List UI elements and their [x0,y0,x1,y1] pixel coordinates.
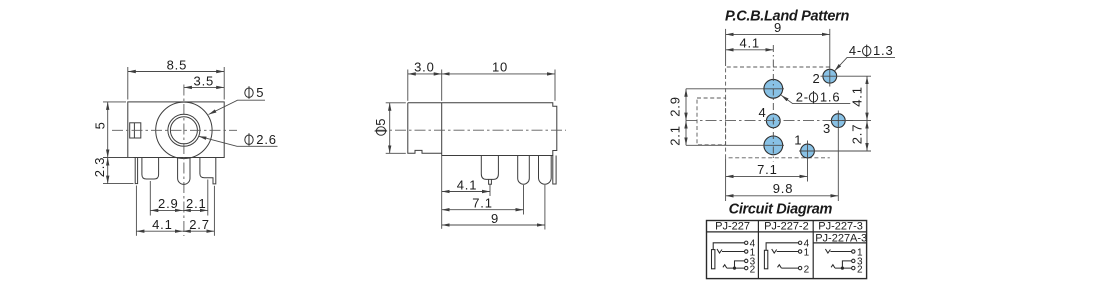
cell1 terminal 3 [745,259,748,262]
pad 1 crosshair vertical [807,141,809,182]
svg-text:8.5: 8.5 [167,58,187,73]
cell1 terminal 4 [745,241,748,244]
dim 9 [442,224,545,226]
cell1 tip switch contact [717,249,722,253]
svg-text:2.7: 2.7 [189,217,209,232]
jack hole inner circle [170,117,197,144]
cell2 tip switch contact [772,249,777,253]
side right flat pin [553,156,556,185]
dim 2.9 left [685,89,687,121]
dim 9 extension line [544,185,546,230]
dim 2.7 [183,230,215,232]
side pin 3 [539,156,552,185]
dim 5 extension lines [103,101,126,103]
pad bottom-left crosshair horizontal [686,144,784,146]
barrel footprint dashed outline [697,98,726,145]
dim 2.1 extension line [207,180,209,216]
svg-text:4.1: 4.1 [457,177,477,192]
pads column centerline [772,45,774,162]
dim 4.1 extension line [489,185,491,196]
dim phi5 [389,103,391,154]
cell1 sleeve bar [712,250,715,269]
cell2 wire to terminal 2 [781,267,798,269]
bent left pin [135,158,137,184]
dim 7.1 [726,175,808,177]
svg-text:9: 9 [491,211,499,226]
dim 2.1 [183,209,208,211]
cell1 junction dot [733,267,736,270]
cell1 wire to terminal 1 [722,251,745,253]
dim 7.1 [442,209,524,211]
cell1 terminal 1 [745,250,748,253]
side pin 1 [481,156,498,180]
cell2 terminal 4 [798,241,801,244]
svg-text:PJ-227: PJ-227 [715,221,750,233]
cell1 ring spring contact [723,265,727,268]
label phi5 leader [209,100,266,114]
cell1 wire terminal 3 to junction [735,261,745,268]
svg-text:4: 4 [758,105,766,120]
cell1 terminal 2 [745,266,748,269]
dim 4.1 [136,230,182,232]
cell2 terminal 2 [798,266,801,269]
svg-text:2: 2 [857,264,863,275]
dim 9 extension lines [725,29,727,66]
table divider 1 [757,221,759,279]
header underline col3 second [813,242,866,244]
left pin [142,158,159,180]
svg-text:3.0: 3.0 [414,60,434,75]
pad 3 [831,114,845,128]
pad top-left crosshair horizontal [686,88,784,90]
svg-text:5: 5 [256,85,264,100]
dim 5 [107,102,109,158]
svg-text:9: 9 [774,20,782,35]
cell3 terminal 3 [852,259,855,262]
svg-text:2-: 2- [796,90,809,105]
dim 3.0 [408,73,442,75]
cell3 wire to terminal 2 [835,267,852,269]
dim 9 [726,33,830,35]
side pin 1 tail stub [489,179,492,184]
jack ring outer circle [168,114,200,146]
svg-text:4.1: 4.1 [739,36,759,51]
svg-text:PJ-227-2: PJ-227-2 [764,221,809,233]
dim 10 extension line [554,70,556,101]
dim 2.7 extension line [213,186,215,236]
cell3 wire to terminal 1 [830,251,851,253]
dim 4.1 extension line [135,186,137,236]
svg-text:10: 10 [492,60,508,75]
svg-text:3.5: 3.5 [194,74,214,89]
svg-text:2: 2 [812,71,820,86]
side centerline [376,129,567,131]
table outer border [707,221,867,279]
cell1 wire to terminal 2 [727,267,745,269]
pad 2 [823,69,837,83]
svg-text:3: 3 [823,121,831,136]
front body outline [128,102,224,158]
svg-text:2.3: 2.3 [92,157,107,177]
dim 3.0 extension lines [407,70,409,101]
svg-text:2: 2 [750,264,756,275]
left side tab [130,123,141,138]
body footprint dashed outline [726,67,830,158]
svg-text:PJ-227-3: PJ-227-3 [818,221,863,233]
pad 1 crosshair horizontal [799,150,871,152]
cell2 wire to terminal 4 [766,243,798,251]
svg-text:2.6: 2.6 [256,132,276,147]
svg-text:PJ-227A-3: PJ-227A-3 [815,232,867,244]
dim 3.5 [184,86,224,88]
dim 9.8 [726,195,839,197]
cell2 terminal 1 [798,250,801,253]
side pin 2 [518,156,530,185]
cell2 ring spring contact [778,265,782,268]
barrel body divider [441,103,443,156]
common extension line [441,156,443,229]
svg-text:P.C.B.Land Pattern: P.C.B.Land Pattern [725,8,849,24]
dim 2.3 extension line [103,183,134,185]
jack barrel outer circle [156,102,212,158]
dim 2.3 [107,158,109,184]
svg-text:2.9: 2.9 [667,96,682,116]
table divider 2 [812,221,814,279]
pad 3 crosshair horizontal [830,120,872,122]
svg-text:1: 1 [794,133,802,148]
center pin [178,158,190,185]
svg-text:1.3: 1.3 [873,43,893,58]
dim 10 [442,73,555,75]
dim 7.1 extension line [725,158,727,201]
cell2 sleeve bar [764,250,767,268]
cell3 terminal 1 [852,250,855,253]
dim 2.7 right [866,121,868,151]
cell1 wire to terminal 4 [713,243,744,250]
svg-text:5: 5 [373,118,388,126]
dim 7.1 extension line [523,185,525,215]
pad hole bottom-left phi1.6 [764,136,783,155]
svg-text:4.1: 4.1 [850,86,865,106]
dim phi5 extension lines [386,102,406,104]
dim 8.5 extension lines [127,67,129,100]
svg-text:1.6: 1.6 [820,90,840,105]
cell3 terminal 2 [852,266,855,269]
pad hole top-left phi1.6 [764,79,783,98]
side body outline [408,103,557,156]
svg-text:4-: 4- [849,43,862,58]
svg-text:2.1: 2.1 [186,196,206,211]
pad 3 crosshair vertical [837,111,839,202]
dim 4.1 top [726,49,774,51]
cell2 wire to terminal 1 [777,251,799,253]
dim 4.1 [442,191,490,193]
horizontal centerline [112,129,237,131]
svg-text:9.8: 9.8 [773,181,793,196]
horizontal centerline [686,120,856,122]
cell3 ring spring contact [831,265,835,268]
dim 2.1 left [685,121,687,146]
dim 4.1 right [866,76,868,120]
svg-text:4.1: 4.1 [152,217,172,232]
svg-text:2.7: 2.7 [850,124,865,144]
pad 2 crosshair horizontal [821,75,872,77]
right pin with bent tail [200,158,216,184]
cell3 tip switch contact [825,249,830,253]
svg-text:2: 2 [804,264,810,275]
svg-text:7.1: 7.1 [757,162,777,177]
vertical centerline [183,85,185,237]
cell3 wire terminal 3 to junction [842,261,851,268]
svg-text:2.1: 2.1 [667,125,682,145]
cell3 junction dot [841,267,844,270]
left side tab divider [133,123,135,138]
svg-text:2.9: 2.9 [158,196,178,211]
label 4-phi1.3 leader [835,57,896,71]
pad 4 [766,114,780,128]
dim 8.5 [128,71,224,73]
pad 1 [801,144,815,158]
header underline [707,231,867,233]
svg-text:7.1: 7.1 [472,196,492,211]
label phi2.6 leader [199,136,278,146]
dim 2.9 [150,209,183,211]
svg-text:5: 5 [92,121,107,129]
barrel bottom with notch [408,103,442,154]
svg-text:Circuit Diagram: Circuit Diagram [729,202,833,218]
dim 2.9 extension line [149,181,151,216]
svg-text:1: 1 [804,247,810,258]
label 2-phi1.6 leader [781,95,850,103]
